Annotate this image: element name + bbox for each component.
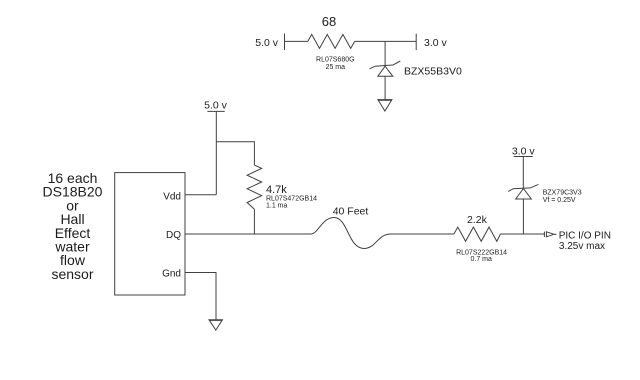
resistor R 2.2k	[454, 227, 501, 241]
ground (top circuit)	[378, 100, 392, 111]
wire	[522, 199, 524, 234]
terminal 5.0v (middle)	[207, 110, 224, 112]
wire	[253, 209, 255, 234]
wire Vdd pin	[185, 194, 216, 196]
wire	[355, 40, 417, 42]
svg-text:2.2k: 2.2k	[467, 214, 488, 226]
wire to zener D1	[384, 41, 386, 65]
svg-text:sensor: sensor	[51, 266, 93, 282]
wire branch to R 4.7k	[216, 142, 254, 165]
wire 40 feet squiggle	[311, 218, 391, 249]
resistor R 4.7k	[247, 165, 262, 209]
wire DQ pin	[185, 233, 311, 235]
svg-text:3.0 v: 3.0 v	[512, 146, 536, 158]
svg-text:BZX79C3V3: BZX79C3V3	[543, 190, 582, 197]
svg-text:40 Feet: 40 Feet	[333, 206, 369, 218]
svg-text:5.0 v: 5.0 v	[204, 100, 228, 112]
svg-text:3.25v max: 3.25v max	[559, 241, 605, 252]
svg-text:3.0 v: 3.0 v	[424, 37, 448, 49]
svg-text:DQ: DQ	[166, 230, 181, 241]
svg-text:0.7 ma: 0.7 ma	[470, 256, 492, 263]
svg-text:4.7k: 4.7k	[266, 184, 287, 196]
wire	[390, 233, 454, 235]
svg-text:Gnd: Gnd	[162, 268, 181, 279]
sensor box U1	[115, 173, 185, 295]
wire	[384, 76, 386, 99]
svg-text:1.1 ma: 1.1 ma	[266, 202, 288, 209]
terminal 5.0v (top left)	[284, 34, 286, 51]
svg-text:RL07S680G: RL07S680G	[316, 56, 355, 63]
terminal 3.0v (top right)	[415, 34, 417, 50]
zener diode D2 BZX79C3V3 cathode bar	[508, 184, 538, 191]
zener diode D1 BZX55B3V0 cathode bar	[370, 61, 401, 69]
svg-text:BZX55B3V0: BZX55B3V0	[404, 65, 462, 77]
wire Gnd pin	[185, 273, 216, 320]
pin symbol PIC I/O	[543, 232, 545, 237]
terminal 3.0v (right)	[514, 156, 533, 158]
ground (sensor)	[209, 320, 223, 330]
svg-text:68: 68	[322, 14, 336, 29]
wire	[522, 157, 524, 189]
svg-text:Vf = 0.25V: Vf = 0.25V	[543, 197, 576, 204]
svg-text:25 ma: 25 ma	[326, 64, 346, 71]
resistor R 68	[308, 34, 355, 48]
svg-text:Vdd: Vdd	[163, 191, 181, 202]
wire	[501, 233, 545, 235]
zener diode D1 BZX55B3V0 triangle	[378, 66, 393, 76]
svg-text:5.0 v: 5.0 v	[255, 37, 279, 49]
wire	[285, 40, 308, 42]
zener diode D2 BZX79C3V3 triangle	[516, 189, 532, 200]
wire	[215, 111, 217, 194]
